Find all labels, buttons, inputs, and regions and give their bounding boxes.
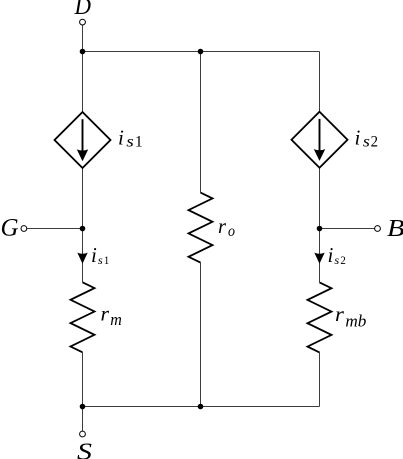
svg-text:is2: is2 <box>328 243 346 267</box>
svg-text:is1: is1 <box>118 126 143 151</box>
svg-text:rmb: rmb <box>335 302 366 330</box>
svg-text:S: S <box>77 439 92 459</box>
svg-text:is2: is2 <box>355 126 379 151</box>
svg-text:G: G <box>1 215 19 242</box>
svg-text:is1: is1 <box>91 243 109 267</box>
svg-text:D: D <box>74 0 91 20</box>
svg-text:B: B <box>387 215 403 242</box>
svg-text:ro: ro <box>218 214 235 240</box>
svg-text:rm: rm <box>101 302 122 330</box>
